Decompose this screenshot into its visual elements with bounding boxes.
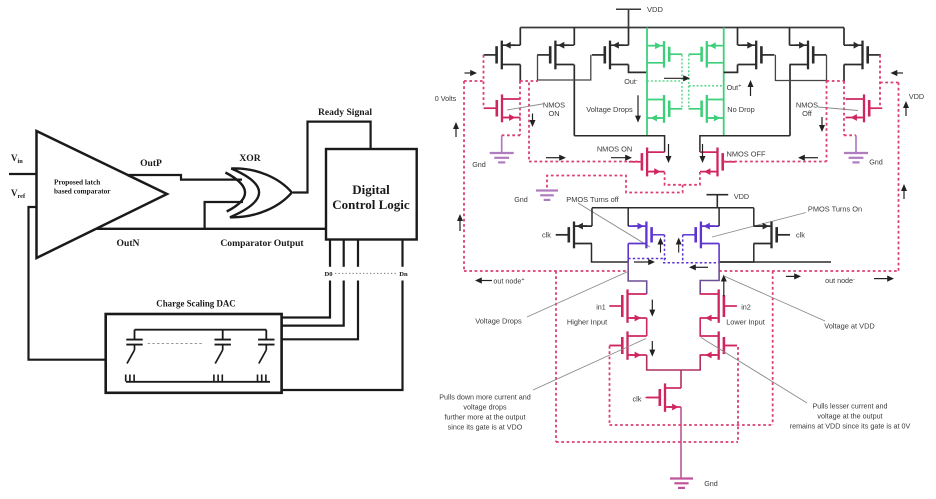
label Pulls down more current annotation <box>439 393 531 432</box>
ground symbol right top <box>844 153 868 162</box>
arrow down at M21 <box>651 341 653 352</box>
capacitor C3 <box>258 330 274 345</box>
ground stem right top <box>855 135 857 152</box>
svg-text:clk: clk <box>796 231 805 240</box>
annotation line PMOS Turns On <box>712 213 806 238</box>
transistor M22 (cascode right, pink) <box>700 331 737 359</box>
wire M15 source to rail <box>591 208 593 226</box>
VDD rail wire middle <box>592 207 754 209</box>
svg-text:Pulls lesser current and: Pulls lesser current and <box>812 402 887 411</box>
svg-text:based comparator: based comparator <box>54 187 111 196</box>
svg-text:Out-: Out- <box>624 77 638 86</box>
svg-text:Higher Input: Higher Input <box>567 318 607 327</box>
pink dashed corner to left bus <box>464 80 484 82</box>
pink dashed gate bus NMOS OFF <box>724 161 827 163</box>
transistor M21 (cascode left, pink) <box>609 331 646 359</box>
svg-text:in2: in2 <box>741 303 751 312</box>
pin D2 wire <box>357 240 359 267</box>
svg-text:Gnd: Gnd <box>472 160 486 169</box>
wire clk left gate stub <box>556 234 569 236</box>
transistor M11 (NMOS ON, pink left) <box>484 94 521 122</box>
wire M3 source to rail <box>628 28 630 46</box>
wire M1 drain down <box>519 65 521 82</box>
svg-text:since its gate is at VDO: since its gate is at VDO <box>448 423 523 432</box>
svg-text:Gnd: Gnd <box>869 158 883 167</box>
svg-text:No Drop: No Drop <box>727 105 755 114</box>
wire M15 drain to out bus <box>592 244 629 263</box>
transistor M6 (NMOS latch, green left) <box>647 95 682 123</box>
svg-text:Digital: Digital <box>352 182 390 197</box>
transistor M5 (PMOS latch, green right) <box>689 41 724 68</box>
wire M22 gate lead ext <box>724 345 737 347</box>
transistor M10 (PMOS current mirror, right) <box>844 41 881 70</box>
green dashed wire out+ to gate <box>689 85 724 87</box>
wire Dn to DAC <box>282 281 403 391</box>
pin D1 wire <box>343 240 345 267</box>
wire D1 to DAC <box>282 281 344 326</box>
transistor M16 (clk PMOS, black right) <box>754 222 790 249</box>
transistor M15 (clk PMOS, black left) <box>556 222 592 249</box>
svg-text:clk: clk <box>542 231 551 240</box>
svg-text:Pulls down more current and: Pulls down more current and <box>439 393 531 402</box>
wire M8 source to rail <box>737 28 739 46</box>
switch S3 <box>259 345 267 364</box>
ground symbol bottom <box>670 479 693 488</box>
transistor M12 (NMOS Off, pink right) <box>846 94 883 122</box>
arrow down at in1 drain <box>651 300 653 312</box>
pink dashed wire gate-drain link M11 <box>520 80 538 82</box>
wire M21 gate lead ext <box>610 345 622 347</box>
pink dashed wire gate-drain link M12 <box>827 80 845 82</box>
wire M9 gate link <box>775 55 826 81</box>
transistor M4 (PMOS latch, green left) <box>647 41 682 68</box>
annotation line pulls down <box>533 339 646 391</box>
charge scaling DAC box <box>106 314 282 393</box>
wire M2 gate link <box>538 55 591 80</box>
wire M3 drain to out node minus <box>629 65 648 73</box>
svg-text:OutN: OutN <box>117 238 140 249</box>
transistor M8 (PMOS, right inner) <box>738 41 775 70</box>
pink dashed rect A bottom <box>556 441 738 443</box>
transistor M3 (PMOS, left inner) <box>592 41 629 70</box>
arrow up at Out+ <box>750 85 752 96</box>
arrow down voltage drops <box>637 95 639 117</box>
arrow down right of M13 <box>668 144 670 158</box>
svg-text:Control Logic: Control Logic <box>332 197 410 212</box>
wire OutN / comparator output to digital control logic <box>96 228 326 230</box>
purple dashed cross-couple bus 2 <box>663 262 719 264</box>
wire M8 drain to out node plus <box>724 65 738 73</box>
pink dashed gate bus NMOS ON <box>529 161 642 163</box>
svg-text:PMOS Turns On: PMOS Turns On <box>808 205 862 214</box>
pink dashed wire M12 drain up to M10 <box>843 81 845 135</box>
VDD rail wire top <box>520 27 844 29</box>
pink dashed out node bus right <box>719 270 898 272</box>
green dashed wire out- to gate <box>647 80 682 82</box>
arrow up purple left <box>660 243 662 253</box>
pink dashed right bus vertical <box>898 83 900 272</box>
transistor M17 (PMOS switch, purple left) <box>628 222 651 249</box>
wire OutP to XOR <box>127 175 242 180</box>
pin D0 wire <box>329 240 331 267</box>
transistor M18 (PMOS switch, purple right) <box>696 222 719 249</box>
wire Vref feedback from DAC <box>29 207 106 360</box>
DAC bottom bus wire <box>126 381 270 383</box>
purple dashed cross-couple bus 1 <box>628 258 666 260</box>
arrow up purple right <box>678 243 680 253</box>
svg-text:Proposed latch: Proposed latch <box>54 178 100 187</box>
svg-text:in1: in1 <box>596 303 606 312</box>
DAC ground tick symbol 3 <box>258 375 266 382</box>
svg-text:out node+: out node+ <box>493 277 524 286</box>
capacitor C1 <box>126 330 142 345</box>
svg-text:Gnd: Gnd <box>704 479 718 488</box>
svg-text:Comparator Output: Comparator Output <box>220 238 304 249</box>
ground symbol left top <box>490 153 514 162</box>
ground symbol middle left <box>536 191 558 200</box>
wire D0 to DAC <box>282 281 330 318</box>
svg-text:NMOS OFF: NMOS OFF <box>726 150 765 159</box>
transistor M14 (NMOS OFF, pink middle-right) <box>700 148 736 177</box>
svg-text:PMOS Turns off: PMOS Turns off <box>566 195 619 204</box>
capacitor C2 <box>215 330 231 345</box>
arrow out node minus 2 <box>874 278 889 280</box>
wire M18 source to rail <box>718 208 720 226</box>
svg-text:0 Volts: 0 Volts <box>435 94 457 103</box>
wire clk bottom gate stub <box>646 397 660 399</box>
wire M16 drain to out bus <box>719 244 754 263</box>
purple dashed gate wire M17 <box>652 234 665 236</box>
svg-text:out node-: out node- <box>825 276 855 285</box>
wire out node minus bus right <box>719 261 831 263</box>
DAC ground tick symbol 1 <box>126 375 134 382</box>
annotation line NMOS ON <box>507 104 545 111</box>
svg-text:VDD: VDD <box>734 192 749 201</box>
pink dashed rect B right side <box>772 271 774 425</box>
pink dashed wire M11 source to ground <box>502 134 520 136</box>
transistor M23 (clk tail NMOS, pink) <box>647 383 681 411</box>
wire Vin input <box>9 173 37 175</box>
arrow out node plus <box>480 280 492 282</box>
DAC ground tick symbol 2 <box>214 375 222 382</box>
wire M18 drain down <box>718 244 720 263</box>
pink dashed rect A left side <box>555 271 557 442</box>
arrow up left bus 2 <box>459 219 461 231</box>
wire clk right gate stub <box>777 234 790 236</box>
DAC dashed continuation line <box>148 343 204 345</box>
arrow down right of M12 <box>821 117 823 127</box>
arrow up right bus 1 <box>905 106 907 116</box>
wire M2 source to rail <box>573 28 575 46</box>
transistor M20 (input in2, pink) <box>700 289 737 322</box>
comparator text label <box>54 178 111 196</box>
wire in2 source down <box>699 318 701 336</box>
wire tail center down <box>680 370 682 388</box>
svg-text:Dn: Dn <box>399 271 408 278</box>
green dashed cross-couple right gate wire <box>688 55 690 109</box>
wire M1 source to rail <box>519 28 521 46</box>
svg-text:Voltage Drops: Voltage Drops <box>586 105 633 114</box>
dotted line D0 to Dn <box>335 272 397 274</box>
label NMOS Off right <box>796 101 818 119</box>
arrow up right bus 2 <box>903 189 905 199</box>
wire M9 drain down to node <box>789 65 791 136</box>
pink dashed out node bus left <box>464 270 628 272</box>
transistor M19 (input in1, pink) <box>609 289 646 322</box>
wire D2 to DAC <box>282 281 358 340</box>
svg-text:NMOS ON: NMOS ON <box>597 145 632 154</box>
arrow on NMOS ON bus 2 <box>611 157 627 159</box>
wire M17 drain down <box>627 244 629 263</box>
arrow up at in2 drain <box>723 280 725 297</box>
wire in1 source down <box>646 318 648 336</box>
arrow out node minus 1 <box>786 275 796 277</box>
purple dashed gate wire M18 <box>683 234 696 236</box>
switch S1 <box>127 345 135 364</box>
svg-text:ON: ON <box>548 109 559 118</box>
svg-text:Charge Scaling DAC: Charge Scaling DAC <box>156 299 235 309</box>
wire node to M14 (black) <box>700 136 790 152</box>
switch S2 <box>215 345 223 364</box>
pink dashed rect A right side <box>737 347 739 442</box>
wire M17 source to rail <box>627 208 629 226</box>
svg-text:Off: Off <box>802 109 813 118</box>
svg-text:remains at VDD since its gate: remains at VDD since its gate is at 0V <box>790 422 911 431</box>
svg-text:clk: clk <box>632 395 641 404</box>
digital control logic box <box>326 149 417 240</box>
pink dashed source drop <box>547 176 683 193</box>
DAC top rail wire <box>135 329 267 331</box>
svg-text:VDD: VDD <box>647 5 664 14</box>
pink dashed source path middle pair to ground <box>665 172 700 185</box>
svg-text:D0: D0 <box>324 271 333 278</box>
svg-text:Voltage Drops: Voltage Drops <box>475 317 522 326</box>
annotation line PMOS Turns off <box>578 203 650 247</box>
svg-text:Gnd: Gnd <box>514 195 528 204</box>
svg-text:Voltage at VDD: Voltage at VDD <box>824 322 875 331</box>
wire OutN branch to XOR <box>205 202 243 229</box>
pink dashed wire M11 drain up to M1 <box>519 81 521 135</box>
pink dashed right corner top <box>880 82 899 84</box>
wire M10 drain down <box>843 65 845 82</box>
pink dashed wire M12 source to ground <box>844 134 856 136</box>
pink dashed vertical from top left <box>528 83 530 162</box>
wire M16 source to rail <box>753 208 755 226</box>
wire node to M13 (black) <box>574 136 664 152</box>
svg-text:XOR: XOR <box>239 153 261 164</box>
VDD tick middle <box>707 195 729 208</box>
wire right drain column to in2 <box>700 262 719 294</box>
wire out node plus column (green) <box>723 28 725 136</box>
wire tail source to ground <box>680 407 682 478</box>
arrow current at Out- <box>664 77 685 79</box>
transistor M9 (PMOS, right) <box>790 41 827 70</box>
svg-text:OutP: OutP <box>140 158 162 169</box>
arrow down left of M14 <box>702 144 704 158</box>
annotation line voltage drops to node <box>527 272 628 318</box>
svg-text:further more at the output: further more at the output <box>444 413 525 422</box>
wire M10 source to rail <box>843 28 845 46</box>
svg-text:voltage at the output: voltage at the output <box>817 412 882 421</box>
label NMOS ON left <box>543 101 565 119</box>
svg-text:Lower Input: Lower Input <box>726 318 765 327</box>
arrow up left bus 1 <box>455 127 457 137</box>
arrow on NMOS ON bus 1 <box>546 157 561 159</box>
svg-text:VDD: VDD <box>909 92 924 101</box>
annotation line NMOS Off <box>818 107 858 111</box>
pink dashed rect B left side <box>609 346 611 425</box>
pin Dn wire <box>401 240 403 267</box>
arrow on NMOS OFF bus <box>803 157 818 159</box>
pink dashed wire M11 gate column <box>483 55 485 108</box>
comparator triangle (proposed latch based comparator) <box>37 131 168 258</box>
transistor M13 (NMOS ON, pink middle-left) <box>629 148 665 177</box>
XOR gate U1 <box>225 168 291 217</box>
arrow right on out bus left <box>634 261 650 263</box>
wire out node minus column (green) <box>646 28 648 136</box>
svg-text:Ready Signal: Ready Signal <box>318 107 372 118</box>
ground stem left top <box>501 135 503 152</box>
arrow into right bus <box>895 72 903 74</box>
wire XOR output / ready signal <box>293 122 371 193</box>
svg-text:voltage drops: voltage drops <box>463 403 507 412</box>
wire left drain column to in1 <box>628 262 647 294</box>
arrow down left of M11 <box>532 114 534 123</box>
transistor M2 (PMOS, left) <box>537 41 574 70</box>
pink dashed left bus corner <box>463 81 465 271</box>
wire tail bus <box>647 355 701 370</box>
digital control logic label <box>332 182 410 212</box>
transistor M1 (PMOS current mirror, left) <box>484 41 521 70</box>
wire M9 source to rail <box>789 28 791 46</box>
annotation line pulls lesser <box>701 338 807 404</box>
label Pulls lesser current annotation <box>790 402 911 431</box>
arrow left on out bus right <box>694 266 708 268</box>
pink dashed wire M12 gate column <box>879 55 881 108</box>
green dashed cross-couple left gate wire <box>681 55 683 109</box>
annotation line voltage at VDD <box>724 276 825 321</box>
pink dashed rect B bottom <box>610 424 773 426</box>
arrow into left bus <box>465 72 473 74</box>
wire M2 drain down to node <box>573 65 575 136</box>
transistor M7 (NMOS latch, green right) <box>689 95 724 123</box>
VDD supply symbol top <box>616 9 641 27</box>
pink dashed vertical from top right <box>826 81 828 162</box>
